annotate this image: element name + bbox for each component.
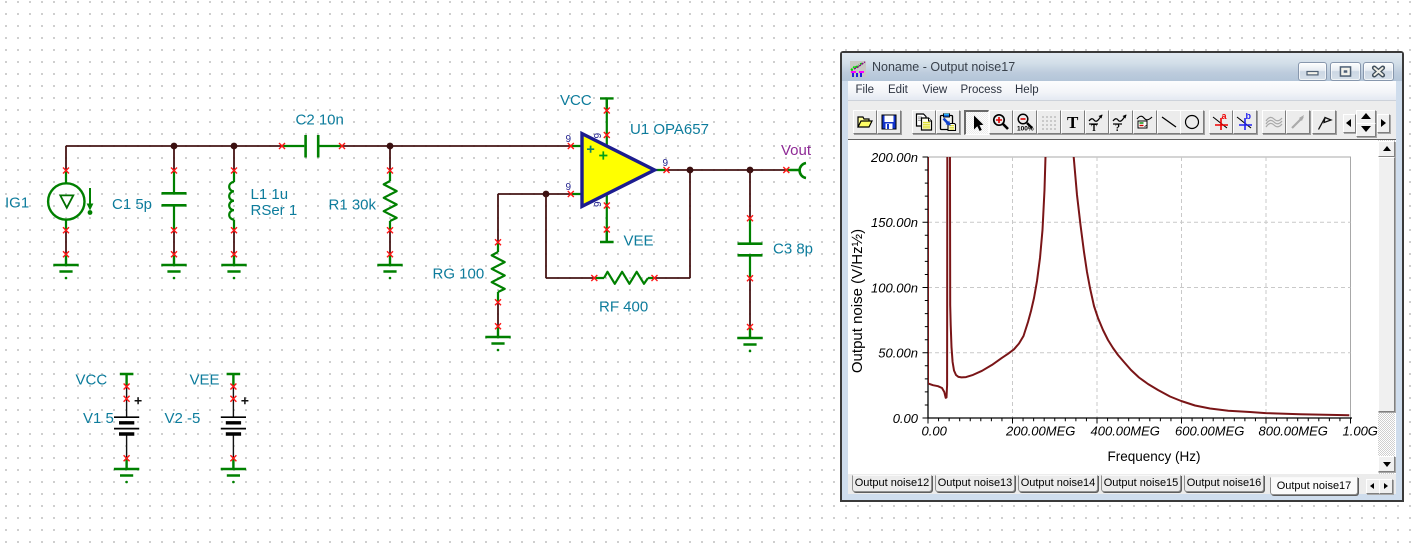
wire: L1 top drop (233, 146, 235, 170)
svg-text:Output noise (V/Hz½): Output noise (V/Hz½) (849, 229, 866, 373)
wire: C1 to ground (173, 230, 175, 254)
node junction at L1 (231, 143, 238, 150)
power VCC at V1 (120, 374, 134, 386)
op-amp U1 OPA657 (570, 98, 666, 242)
capacitor C1 (162, 170, 187, 230)
x axis tick labels (922, 424, 1378, 439)
wire: C1 top drop (173, 146, 175, 170)
label VCC at op-amp (560, 92, 592, 109)
power VEE at op-amp (600, 230, 614, 242)
power VEE at V2 (227, 374, 241, 386)
svg-text:C2 10n: C2 10n (296, 112, 344, 129)
svg-text:RG 100: RG 100 (433, 266, 485, 283)
wire: RG corner drop (497, 194, 499, 242)
svg-text:600.00MEG: 600.00MEG (1175, 424, 1244, 439)
y ticks (923, 157, 929, 418)
svg-text:200.00n: 200.00n (870, 150, 918, 165)
wire: feedback riser to output net (689, 170, 691, 278)
label VEE at V2 (190, 372, 220, 389)
battery V2 -5 (221, 397, 249, 458)
node junction C3/output (747, 167, 754, 174)
svg-text:100.00n: 100.00n (871, 280, 918, 295)
svg-text:IG1: IG1 (5, 195, 29, 212)
svg-text:R1 30k: R1 30k (329, 197, 377, 214)
label V1 5 (83, 410, 114, 427)
svg-text:?: ? (1115, 123, 1120, 131)
node junction feedback/output (687, 167, 694, 174)
label U1 OPA657 (630, 121, 709, 138)
plot frame top/right (928, 157, 1351, 418)
node junction at C1 (171, 143, 178, 150)
ground below RG (485, 326, 510, 351)
wire: R1 to ground (389, 230, 391, 254)
svg-text:T: T (1067, 113, 1079, 131)
wire: R1 top drop (389, 146, 391, 170)
svg-text:VEE: VEE (624, 233, 654, 250)
battery V1 5 (114, 397, 142, 458)
vertical scrollbar (1378, 140, 1395, 474)
label RF 400 (599, 299, 648, 316)
wire: VEE symbol to V2 battery (232, 386, 234, 398)
label R1 30k (329, 197, 377, 214)
wire: feedback vertical from tap (545, 194, 547, 278)
pin 9 (noninverting input) (566, 134, 572, 145)
svg-text:V2 -5: V2 -5 (165, 410, 201, 427)
svg-text:150.00n: 150.00n (871, 215, 918, 230)
wire: L1 to ground (233, 230, 235, 254)
capacitor C3 (738, 218, 763, 278)
pin 9 (inverting input) (566, 182, 572, 193)
pin 9 (V- supply, rotated) (593, 201, 604, 207)
wire: feedback horizontal to RF (546, 277, 594, 279)
label VCC at V1 (76, 372, 108, 389)
terminal x marks (63, 108, 789, 462)
label V2 -5 (165, 410, 201, 427)
svg-text:800.00MEG: 800.00MEG (1259, 424, 1328, 439)
wire: VCC symbol to V1 battery (126, 386, 128, 398)
resistor RF 400 (594, 272, 654, 284)
terminal Vout hook (786, 163, 806, 178)
svg-text:9: 9 (593, 201, 604, 207)
wire: RG to ground (497, 302, 499, 326)
pin 9 (output) (663, 158, 669, 169)
ground below L1 (221, 254, 246, 279)
svg-text:C3 8p: C3 8p (773, 241, 813, 258)
svg-text:50.00n: 50.00n (878, 346, 918, 361)
svg-text:C1 5p: C1 5p (112, 196, 152, 213)
inductor L1 (229, 170, 234, 230)
svg-text:VCC: VCC (76, 372, 108, 389)
svg-text:VCC: VCC (560, 92, 592, 109)
node junction at feedback tap (543, 191, 550, 198)
svg-text:Frequency (Hz): Frequency (Hz) (1107, 449, 1200, 464)
label L1 1u / RSer 1 (251, 186, 298, 219)
svg-text:9: 9 (593, 133, 604, 139)
wire: main top net from C2 right terminal to op-amp + input (342, 145, 570, 147)
svg-text:200.00MEG: 200.00MEG (1005, 424, 1075, 439)
svg-text:400.00MEG: 400.00MEG (1091, 424, 1160, 439)
output noise curve (928, 0, 1349, 415)
pin 9 (V+ supply, rotated) (593, 133, 604, 139)
svg-text:L1 1u: L1 1u (251, 186, 289, 203)
label IG1 (5, 195, 29, 212)
x ticks (928, 418, 1351, 424)
svg-text:T: T (1091, 123, 1097, 131)
resistor RG 100 (492, 242, 505, 302)
wire: main top net from IG1 to C2 left terminal (66, 145, 282, 147)
ground below V2 (221, 458, 246, 483)
label C1 5p (112, 196, 152, 213)
wire: output net (666, 169, 786, 171)
svg-text:0.00: 0.00 (922, 424, 948, 439)
ground below V1 (114, 458, 139, 483)
node junction at R1 (387, 143, 394, 150)
svg-text:1.00G: 1.00G (1343, 424, 1378, 439)
ground below C1 (161, 254, 186, 279)
label RG 100 (433, 266, 485, 283)
label C3 8p (773, 241, 813, 258)
y axis tick labels (870, 150, 919, 426)
svg-text:b: b (1246, 113, 1252, 121)
current source IG1 (48, 170, 93, 230)
wire: C3 top drop (749, 170, 751, 218)
wire: inverting input net from RG corner to op-amp (498, 193, 570, 195)
resistor R1 (384, 170, 397, 230)
svg-text:0.00: 0.00 (893, 411, 919, 426)
capacitor C2 (282, 135, 342, 158)
svg-text:V1 5: V1 5 (83, 410, 114, 427)
wire: IG1 top drop (65, 146, 67, 170)
svg-text:100%: 100% (1017, 126, 1034, 132)
wire: RF to output riser (654, 277, 690, 279)
svg-text:RSer 1: RSer 1 (251, 202, 298, 219)
label Vout (781, 142, 812, 159)
ground below IG1 (53, 254, 78, 279)
label C2 10n (296, 112, 344, 129)
svg-text:Vout: Vout (781, 142, 812, 159)
wire: C3 to ground (749, 278, 751, 327)
svg-text:RF 400: RF 400 (599, 299, 648, 316)
ground below C3 (737, 327, 762, 352)
svg-text:a: a (1222, 113, 1228, 121)
axes (928, 157, 1352, 418)
svg-text:VEE: VEE (190, 372, 220, 389)
power VCC at op-amp (600, 98, 614, 110)
wire: IG1 to ground (65, 230, 67, 254)
label VEE at op-amp (624, 233, 654, 250)
svg-text:U1 OPA657: U1 OPA657 (630, 121, 709, 138)
dashed gridlines (928, 157, 1351, 418)
ground below R1 (377, 254, 402, 279)
